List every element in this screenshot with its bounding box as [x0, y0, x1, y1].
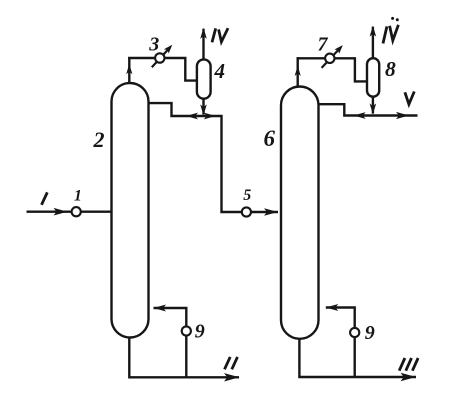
pump 5	[242, 207, 251, 216]
stream label III	[399, 358, 418, 371]
wire: drum 4 top outlet stream IV	[202, 29, 204, 61]
svg-text:7: 7	[318, 33, 329, 55]
wire: column 6 bottoms line stream III	[299, 337, 416, 377]
column 2	[112, 83, 149, 338]
svg-text:9: 9	[195, 321, 205, 343]
arrowhead up stream IV	[200, 28, 207, 39]
label 4	[213, 59, 225, 83]
arrowhead right distillate	[204, 113, 216, 120]
arrowhead up on riser of column 2	[126, 64, 132, 74]
arrowhead right stream III	[401, 373, 417, 381]
wire: drum 8 bottom outlet	[372, 96, 374, 114]
stream label II	[225, 357, 238, 369]
label 8	[385, 57, 396, 81]
arrowhead down from drum 4	[200, 104, 207, 115]
svg-text:6: 6	[263, 126, 275, 151]
arrowhead right stream V	[396, 112, 409, 119]
wire: column 6 overhead riser	[297, 57, 299, 87]
wire: reboiler recirculation left with pump 9	[154, 308, 187, 377]
arrowhead right into column 6 feed	[264, 208, 278, 216]
pump 9 right	[350, 328, 359, 337]
stream label V	[405, 92, 414, 105]
arrowhead on feed line	[54, 208, 68, 216]
wire: reboiler recirculation right with pump 9	[326, 308, 355, 378]
label 9 right	[365, 322, 375, 344]
svg-text:2: 2	[93, 127, 105, 152]
svg-text:9: 9	[365, 322, 375, 344]
label 1	[74, 188, 82, 205]
stream label I	[42, 192, 48, 204]
arrowhead right stream II	[224, 373, 240, 381]
wire: drum 4 bottom outlet	[202, 97, 204, 115]
arrowhead up stream IV'	[370, 26, 377, 37]
reflux drum 8	[367, 58, 379, 96]
wire: overhead vapor line to condenser 3 and drum 4	[128, 58, 197, 81]
svg-text:5: 5	[243, 187, 251, 204]
arrowhead up on riser of column 6	[295, 66, 301, 76]
wire: feed line I to pump 1 to column 2	[27, 210, 112, 212]
label 9 left	[195, 321, 205, 343]
svg-text:3: 3	[148, 34, 159, 56]
column 6	[281, 87, 319, 339]
label 6	[263, 126, 275, 151]
arrowhead down from drum 8	[370, 103, 377, 114]
wire: column 6 distillate/reflux step line stream V	[319, 104, 418, 115]
label 2	[93, 127, 105, 152]
wire: column 2 overhead riser	[128, 57, 130, 84]
wire: column 2 bottoms line stream II	[129, 336, 239, 377]
label 5	[243, 187, 251, 204]
condenser 3 (circle with flow arrow)	[152, 45, 173, 68]
wire: column 2 distillate/reflux step line down to pump 5 feed of column 6	[149, 103, 279, 212]
arrowhead left into column 2 bottom	[154, 305, 167, 312]
wire: overhead vapor line to condenser 7 and drum 8	[297, 58, 368, 81]
arrowhead left into column 6 bottom	[326, 304, 339, 311]
condenser 7 (circle with flow arrow)	[322, 45, 343, 68]
pump 1	[72, 207, 81, 216]
label 7	[318, 33, 329, 55]
label 3	[148, 34, 159, 56]
arrowhead left reflux into column 6	[354, 112, 366, 119]
svg-text:4: 4	[213, 59, 225, 83]
stream label IV	[212, 28, 228, 42]
pump 9 left	[182, 326, 191, 335]
reflux drum 4	[197, 59, 211, 98]
svg-text:1: 1	[74, 188, 82, 205]
svg-text:8: 8	[385, 57, 396, 81]
stream label IV-double-dot	[383, 17, 399, 44]
wire: drum 8 top outlet stream IV'	[372, 27, 374, 60]
arrowhead left reflux into column 2	[186, 113, 198, 120]
